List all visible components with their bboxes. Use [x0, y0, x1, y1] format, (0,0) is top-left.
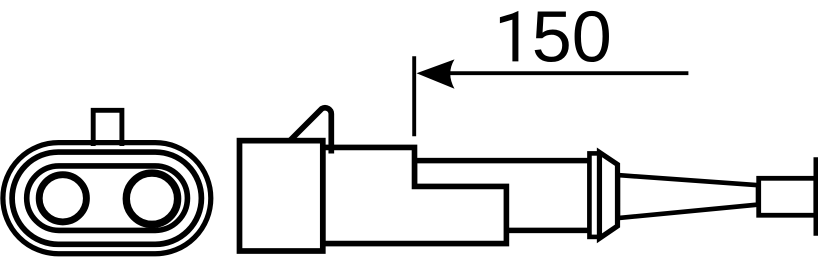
svg-text:50: 50	[532, 0, 612, 77]
